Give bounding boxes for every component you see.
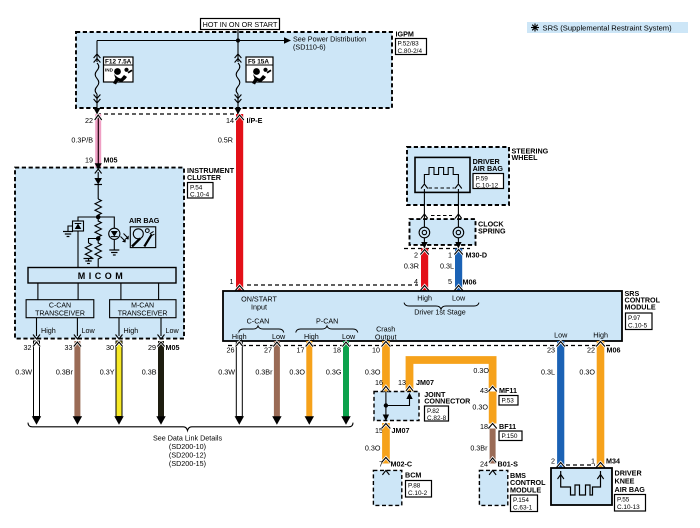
resistor R2	[95, 217, 101, 238]
steering wheel box	[407, 146, 549, 205]
svg-text:C.63-1: C.63-1	[513, 505, 533, 512]
svg-text:WHEEL: WHEEL	[512, 153, 539, 162]
svg-text:High: High	[304, 332, 319, 341]
svg-text:P.55: P.55	[617, 497, 630, 504]
svg-text:22: 22	[587, 346, 595, 355]
svg-text:P.54: P.54	[190, 185, 203, 192]
MICOM box	[28, 268, 176, 284]
svg-text:AIR BAG: AIR BAG	[473, 164, 504, 173]
connector BF11	[480, 422, 522, 441]
svg-text:24: 24	[480, 460, 488, 469]
svg-text:C.10-12: C.10-12	[476, 182, 499, 189]
wire to See Power Distribution	[238, 35, 366, 52]
wire 0.3O orange (MF11 to BF11)	[472, 392, 496, 424]
svg-text:0.3R: 0.3R	[404, 262, 419, 271]
exit arrow pin 30	[116, 335, 123, 340]
svg-text:P.82: P.82	[427, 408, 440, 415]
IGPM box	[76, 30, 427, 109]
svg-text:TRANSCEIVER: TRANSCEIVER	[118, 310, 168, 317]
SRS control module box	[223, 289, 661, 341]
wire junction to left fuse	[97, 40, 238, 42]
ground R3	[84, 259, 94, 264]
wire MICOM to C-CAN b	[77, 283, 79, 300]
wire from HOT to junction	[237, 30, 239, 41]
connector row M30-D dashed	[404, 248, 470, 250]
wire M-CAN high	[118, 318, 120, 336]
svg-text:IGPM: IGPM	[396, 30, 414, 39]
svg-text:P.52/83: P.52/83	[398, 41, 420, 48]
svg-text:High: High	[417, 294, 432, 303]
clock spring box	[410, 219, 506, 245]
svg-text:C.10-13: C.10-13	[617, 504, 640, 511]
svg-text:M06: M06	[463, 278, 477, 287]
svg-text:High: High	[41, 326, 56, 335]
resistor R3	[85, 243, 91, 261]
fuse F12 7.5A	[94, 54, 133, 108]
connector MF11	[488, 386, 518, 405]
connector row I/P-E dashed	[97, 113, 238, 115]
wire 0.3Y yellow (cluster 30)	[100, 341, 124, 425]
svg-text:SRS (Supplemental Restraint Sy: SRS (Supplemental Restraint System)	[543, 23, 673, 32]
svg-text:M34: M34	[606, 457, 620, 466]
svg-text:M-CAN: M-CAN	[131, 302, 154, 309]
svg-text:M02-C: M02-C	[391, 460, 413, 469]
legend SRS header	[527, 22, 688, 33]
svg-text:32: 32	[24, 343, 32, 352]
svg-text:22: 22	[85, 116, 93, 125]
svg-text:0.3O: 0.3O	[472, 403, 488, 412]
svg-text:MODULE: MODULE	[510, 486, 541, 495]
label HOT IN ON OR START	[201, 19, 280, 30]
diode D1	[94, 172, 102, 199]
wire M-CAN low	[160, 318, 162, 336]
svg-text:C.10-2: C.10-2	[408, 490, 428, 497]
svg-text:M05: M05	[104, 156, 118, 165]
connector row M34 dashed	[566, 464, 595, 466]
svg-text:Driver 1st Stage: Driver 1st Stage	[414, 307, 466, 316]
svg-text:26: 26	[227, 346, 235, 355]
squib driver air bag	[421, 168, 462, 206]
svg-text:0.3Br: 0.3Br	[255, 368, 273, 377]
svg-text:0.3Br: 0.3Br	[56, 368, 74, 377]
svg-text:0.3Y: 0.3Y	[100, 368, 115, 377]
svg-text:BF11: BF11	[499, 422, 516, 431]
svg-text:F5 15A: F5 15A	[248, 59, 269, 66]
svg-text:BCM: BCM	[405, 471, 421, 480]
IGPM exit arrow right pin 14	[235, 108, 242, 115]
wire J1 to zener box	[78, 217, 98, 221]
node J1	[96, 215, 101, 220]
svg-text:C-CAN: C-CAN	[49, 302, 71, 309]
svg-text:High: High	[593, 331, 608, 340]
ground cluster-left	[63, 232, 73, 237]
svg-text:TRANSCEIVER: TRANSCEIVER	[35, 310, 85, 317]
svg-text:0.3G: 0.3G	[326, 368, 342, 377]
svg-text:C.80-2/4: C.80-2/4	[398, 48, 423, 55]
wire 0.3O orange (JM07 15 to BCM 7)	[365, 423, 390, 464]
svg-text:IND: IND	[105, 68, 114, 73]
pin arrows into JM07	[382, 386, 389, 391]
svg-text:C.10-5: C.10-5	[628, 322, 648, 329]
svg-text:0.3O: 0.3O	[365, 444, 381, 453]
svg-text:Low: Low	[452, 294, 466, 303]
svg-text:4: 4	[414, 277, 418, 286]
svg-text:0.3O: 0.3O	[579, 368, 595, 377]
svg-text:2: 2	[414, 251, 418, 260]
svg-text:5: 5	[448, 277, 452, 286]
wire zener to ground	[68, 226, 73, 232]
svg-text:P.88: P.88	[408, 483, 421, 490]
svg-text:0.3L: 0.3L	[541, 368, 555, 377]
svg-text:P.53: P.53	[502, 398, 515, 405]
node junction IGPM	[236, 38, 240, 42]
svg-text:0.5R: 0.5R	[218, 135, 233, 144]
svg-text:33: 33	[65, 343, 73, 352]
wire MICOM to C-CAN a	[37, 283, 39, 300]
C-CAN transceiver box	[26, 300, 94, 318]
squib driver knee air bag	[558, 471, 604, 495]
svg-text:27: 27	[264, 346, 272, 355]
BCM box	[373, 470, 431, 505]
resistor R4	[95, 239, 101, 269]
svg-text:Low: Low	[554, 331, 568, 340]
svg-text:18: 18	[480, 422, 488, 431]
svg-text:C-CAN: C-CAN	[247, 317, 270, 326]
svg-text:2: 2	[551, 457, 555, 466]
M-CAN transceiver box	[110, 300, 176, 318]
wire 0.5R red to SRS pin 1	[218, 114, 244, 291]
wire C-CAN low	[76, 318, 78, 336]
coil clock spring left	[419, 219, 430, 248]
wire 0.3W white (cluster 32)	[15, 341, 41, 425]
svg-text:0.3P/B: 0.3P/B	[71, 135, 93, 144]
exit arrow pin 29	[158, 335, 165, 340]
svg-text:Low: Low	[342, 332, 356, 341]
svg-text:MODULE: MODULE	[625, 302, 656, 311]
svg-text:(SD110-6): (SD110-6)	[293, 43, 326, 52]
wire C-CAN high	[36, 318, 38, 336]
svg-text:18: 18	[333, 346, 341, 355]
driver knee air bag box	[551, 468, 646, 511]
svg-text:M05: M05	[166, 343, 180, 352]
svg-text:0.3B: 0.3B	[142, 368, 157, 377]
wire 0.3O orange (crash output pin 10)	[365, 341, 390, 392]
wire 0.3L blue (knee low)	[541, 341, 565, 468]
wire 0.3G green (SRS 18)	[326, 341, 351, 425]
svg-text:16: 16	[375, 378, 383, 387]
wire entry arrow into cluster	[95, 163, 102, 169]
svg-text:17: 17	[297, 346, 305, 355]
wire 0.3O orange (knee high)	[579, 341, 604, 468]
svg-text:14: 14	[226, 116, 234, 125]
wire zener box to MICOM	[77, 231, 79, 268]
svg-text:CONNECTOR: CONNECTOR	[424, 397, 471, 406]
driver air bag box	[415, 157, 504, 192]
wire junction to right fuse	[237, 41, 239, 63]
svg-text:0.3W: 0.3W	[15, 368, 32, 377]
svg-text:C.10-4: C.10-4	[190, 192, 210, 199]
svg-text:0.3O: 0.3O	[473, 366, 489, 375]
wire inside JM07	[383, 392, 413, 422]
joint connector JM07 box	[374, 378, 471, 422]
wire J1 to lamp	[98, 217, 114, 228]
wire 0.3Br brown (cluster 33)	[56, 341, 82, 425]
svg-text:CLUSTER: CLUSTER	[187, 173, 222, 182]
instrument cluster box	[15, 166, 235, 338]
svg-text:High: High	[124, 326, 139, 335]
svg-text:JM07: JM07	[416, 378, 434, 387]
svg-text:0.3Br: 0.3Br	[470, 444, 488, 453]
svg-text:MICOM: MICOM	[78, 271, 127, 281]
IGPM exit arrow left pin 22	[94, 108, 101, 115]
brace C-CAN	[239, 326, 284, 333]
svg-text:0.3O: 0.3O	[365, 368, 381, 377]
zener diode in box	[73, 221, 84, 231]
resistor R1	[95, 199, 101, 217]
svg-text:F12 7.5A: F12 7.5A	[105, 59, 132, 66]
svg-text:29: 29	[148, 343, 156, 352]
wire 0.3Br brown (BF11 to BMS)	[470, 429, 496, 464]
exit arrow pin 32	[33, 335, 40, 340]
wire 0.3B black (cluster 29)	[142, 341, 166, 425]
svg-text:7: 7	[379, 460, 383, 469]
svg-text:10: 10	[372, 346, 380, 355]
icon air bag	[130, 227, 155, 248]
svg-text:M30-D: M30-D	[466, 251, 488, 260]
svg-text:High: High	[232, 332, 247, 341]
exit arrow pin 33	[74, 335, 81, 340]
svg-text:19: 19	[85, 156, 93, 165]
svg-text:23: 23	[547, 346, 555, 355]
connector row bottom dashed	[228, 345, 612, 347]
wires steering to clock spring	[421, 205, 462, 219]
svg-text:0.3W: 0.3W	[218, 368, 235, 377]
wire 0.3L blue	[440, 249, 463, 292]
svg-text:C.82-8: C.82-8	[427, 415, 447, 422]
svg-text:AIR BAG: AIR BAG	[615, 485, 646, 494]
svg-text:0.3O: 0.3O	[289, 368, 305, 377]
svg-text:P.154: P.154	[513, 497, 529, 504]
svg-text:1: 1	[448, 251, 452, 260]
svg-text:P.59: P.59	[476, 175, 489, 182]
svg-text:P.97: P.97	[628, 315, 641, 322]
svg-text:13: 13	[398, 378, 406, 387]
svg-text:Low: Low	[82, 326, 96, 335]
wire 0.3P/B pink	[71, 114, 101, 168]
brace data link	[28, 423, 353, 431]
node J2	[96, 236, 101, 241]
svg-text:Low: Low	[272, 332, 286, 341]
svg-text:M06: M06	[607, 346, 621, 355]
connector row M06 top dashed	[247, 284, 418, 286]
brace P-CAN	[296, 326, 358, 333]
wire 0.3W white (SRS 26)	[218, 341, 244, 425]
svg-text:P-CAN: P-CAN	[316, 317, 338, 326]
svg-text:P.150: P.150	[502, 433, 518, 440]
svg-text:HOT IN ON OR START: HOT IN ON OR START	[203, 20, 278, 29]
svg-text:Low: Low	[166, 326, 180, 335]
coil clock spring right	[453, 219, 464, 248]
wire 0.3O orange (JM07 13 to MF11 43)	[410, 360, 493, 392]
wire 0.3O orange (SRS 17)	[289, 341, 314, 425]
wire J2 left	[89, 239, 99, 244]
svg-text:1: 1	[230, 277, 234, 286]
svg-text:(SD200-15): (SD200-15)	[169, 459, 206, 468]
svg-text:1: 1	[591, 457, 595, 466]
svg-text:MF11: MF11	[499, 386, 517, 395]
svg-text:30: 30	[106, 343, 114, 352]
svg-text:JM07: JM07	[392, 426, 410, 435]
svg-text:SPRING: SPRING	[478, 226, 506, 235]
wire 0.3R red	[404, 249, 429, 292]
svg-text:B01-S: B01-S	[498, 460, 519, 469]
wire MICOM to M-CAN b	[158, 283, 160, 300]
wire MICOM to M-CAN a	[120, 283, 122, 300]
brace driver 1st stage	[404, 303, 479, 310]
svg-text:43: 43	[480, 386, 488, 395]
wire 0.3Br brown (SRS 27)	[255, 341, 281, 425]
lamp air bag LED	[109, 228, 129, 250]
svg-text:AIR BAG: AIR BAG	[129, 216, 160, 225]
svg-text:0.3L: 0.3L	[440, 262, 454, 271]
svg-text:I/P-E: I/P-E	[247, 116, 263, 125]
fuse F5 15A	[235, 54, 273, 108]
ground lamp	[109, 250, 119, 255]
BMS control module box	[479, 470, 546, 511]
svg-text:Input: Input	[251, 303, 267, 312]
